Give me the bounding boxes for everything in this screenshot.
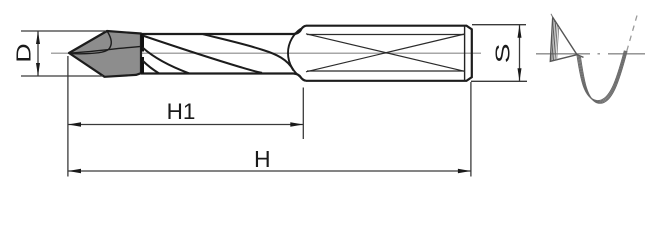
icon centerline segment 2	[608, 53, 645, 55]
S bottom extension line	[471, 80, 527, 82]
D bottom extension line	[21, 75, 103, 77]
S arrow down	[518, 68, 522, 81]
D arrow down	[36, 63, 40, 76]
H1 right extension line	[302, 88, 304, 140]
icon triangle tail	[577, 55, 584, 58]
H arrow right	[458, 169, 471, 173]
H dimension line	[68, 170, 471, 172]
S top extension line	[472, 24, 526, 26]
H arrow left	[68, 169, 81, 173]
D arrow up	[36, 31, 40, 44]
spiral flute line E	[143, 61, 160, 74]
icon dashed continuation	[627, 16, 637, 52]
icon centerline segment 1	[536, 53, 590, 55]
shank inner bottom line	[307, 70, 465, 72]
icon triangle apex overshoot	[551, 14, 553, 17]
carbide tip	[69, 31, 141, 77]
icon flute profile stroke 2	[578, 51, 625, 102]
shank cross line 1	[306, 34, 465, 72]
svg-text:H1: H1	[167, 99, 196, 124]
svg-text:D: D	[12, 43, 35, 62]
flute top edge	[141, 26, 306, 34]
icon triangle hatch 4	[557, 27, 559, 60]
icon spur triangle	[550, 17, 577, 61]
S dimension line	[519, 25, 521, 82]
icon flute profile stroke 1	[577, 51, 624, 101]
shank end extension line	[470, 82, 472, 177]
centerline	[51, 52, 481, 54]
D top extension line	[21, 30, 106, 32]
shank outline	[306, 26, 472, 81]
flute gullet edge lower	[141, 57, 144, 73]
icon triangle hatch 2	[554, 22, 556, 61]
S arrow up	[518, 25, 522, 38]
H1 dimension line	[68, 124, 303, 126]
flute bottom edge	[141, 74, 306, 81]
shank cross line 2	[306, 34, 465, 72]
shank inner top line	[307, 34, 465, 36]
svg-text:S: S	[492, 43, 514, 63]
shank chamfer inner edge	[464, 26, 466, 81]
H1 arrow left	[68, 122, 81, 126]
drill point extension line	[67, 56, 69, 177]
spiral flute line A	[143, 36, 263, 73]
spiral flute line B	[203, 34, 294, 70]
icon centerline dot	[598, 53, 601, 55]
flute gullet edge upper	[141, 34, 144, 52]
flute runout arc	[288, 29, 301, 78]
H1 arrow right	[290, 122, 303, 126]
tip facet curve	[70, 31, 112, 54]
tip chisel edge	[69, 46, 143, 53]
icon flute profile stroke 3	[579, 51, 626, 102]
icon flute profile stroke 4	[580, 51, 627, 103]
spiral flute line D	[143, 48, 190, 74]
icon triangle hatch 1	[552, 20, 554, 62]
svg-text:H: H	[254, 146, 271, 172]
D dimension line	[37, 31, 39, 76]
icon triangle hatch 3	[555, 25, 557, 61]
